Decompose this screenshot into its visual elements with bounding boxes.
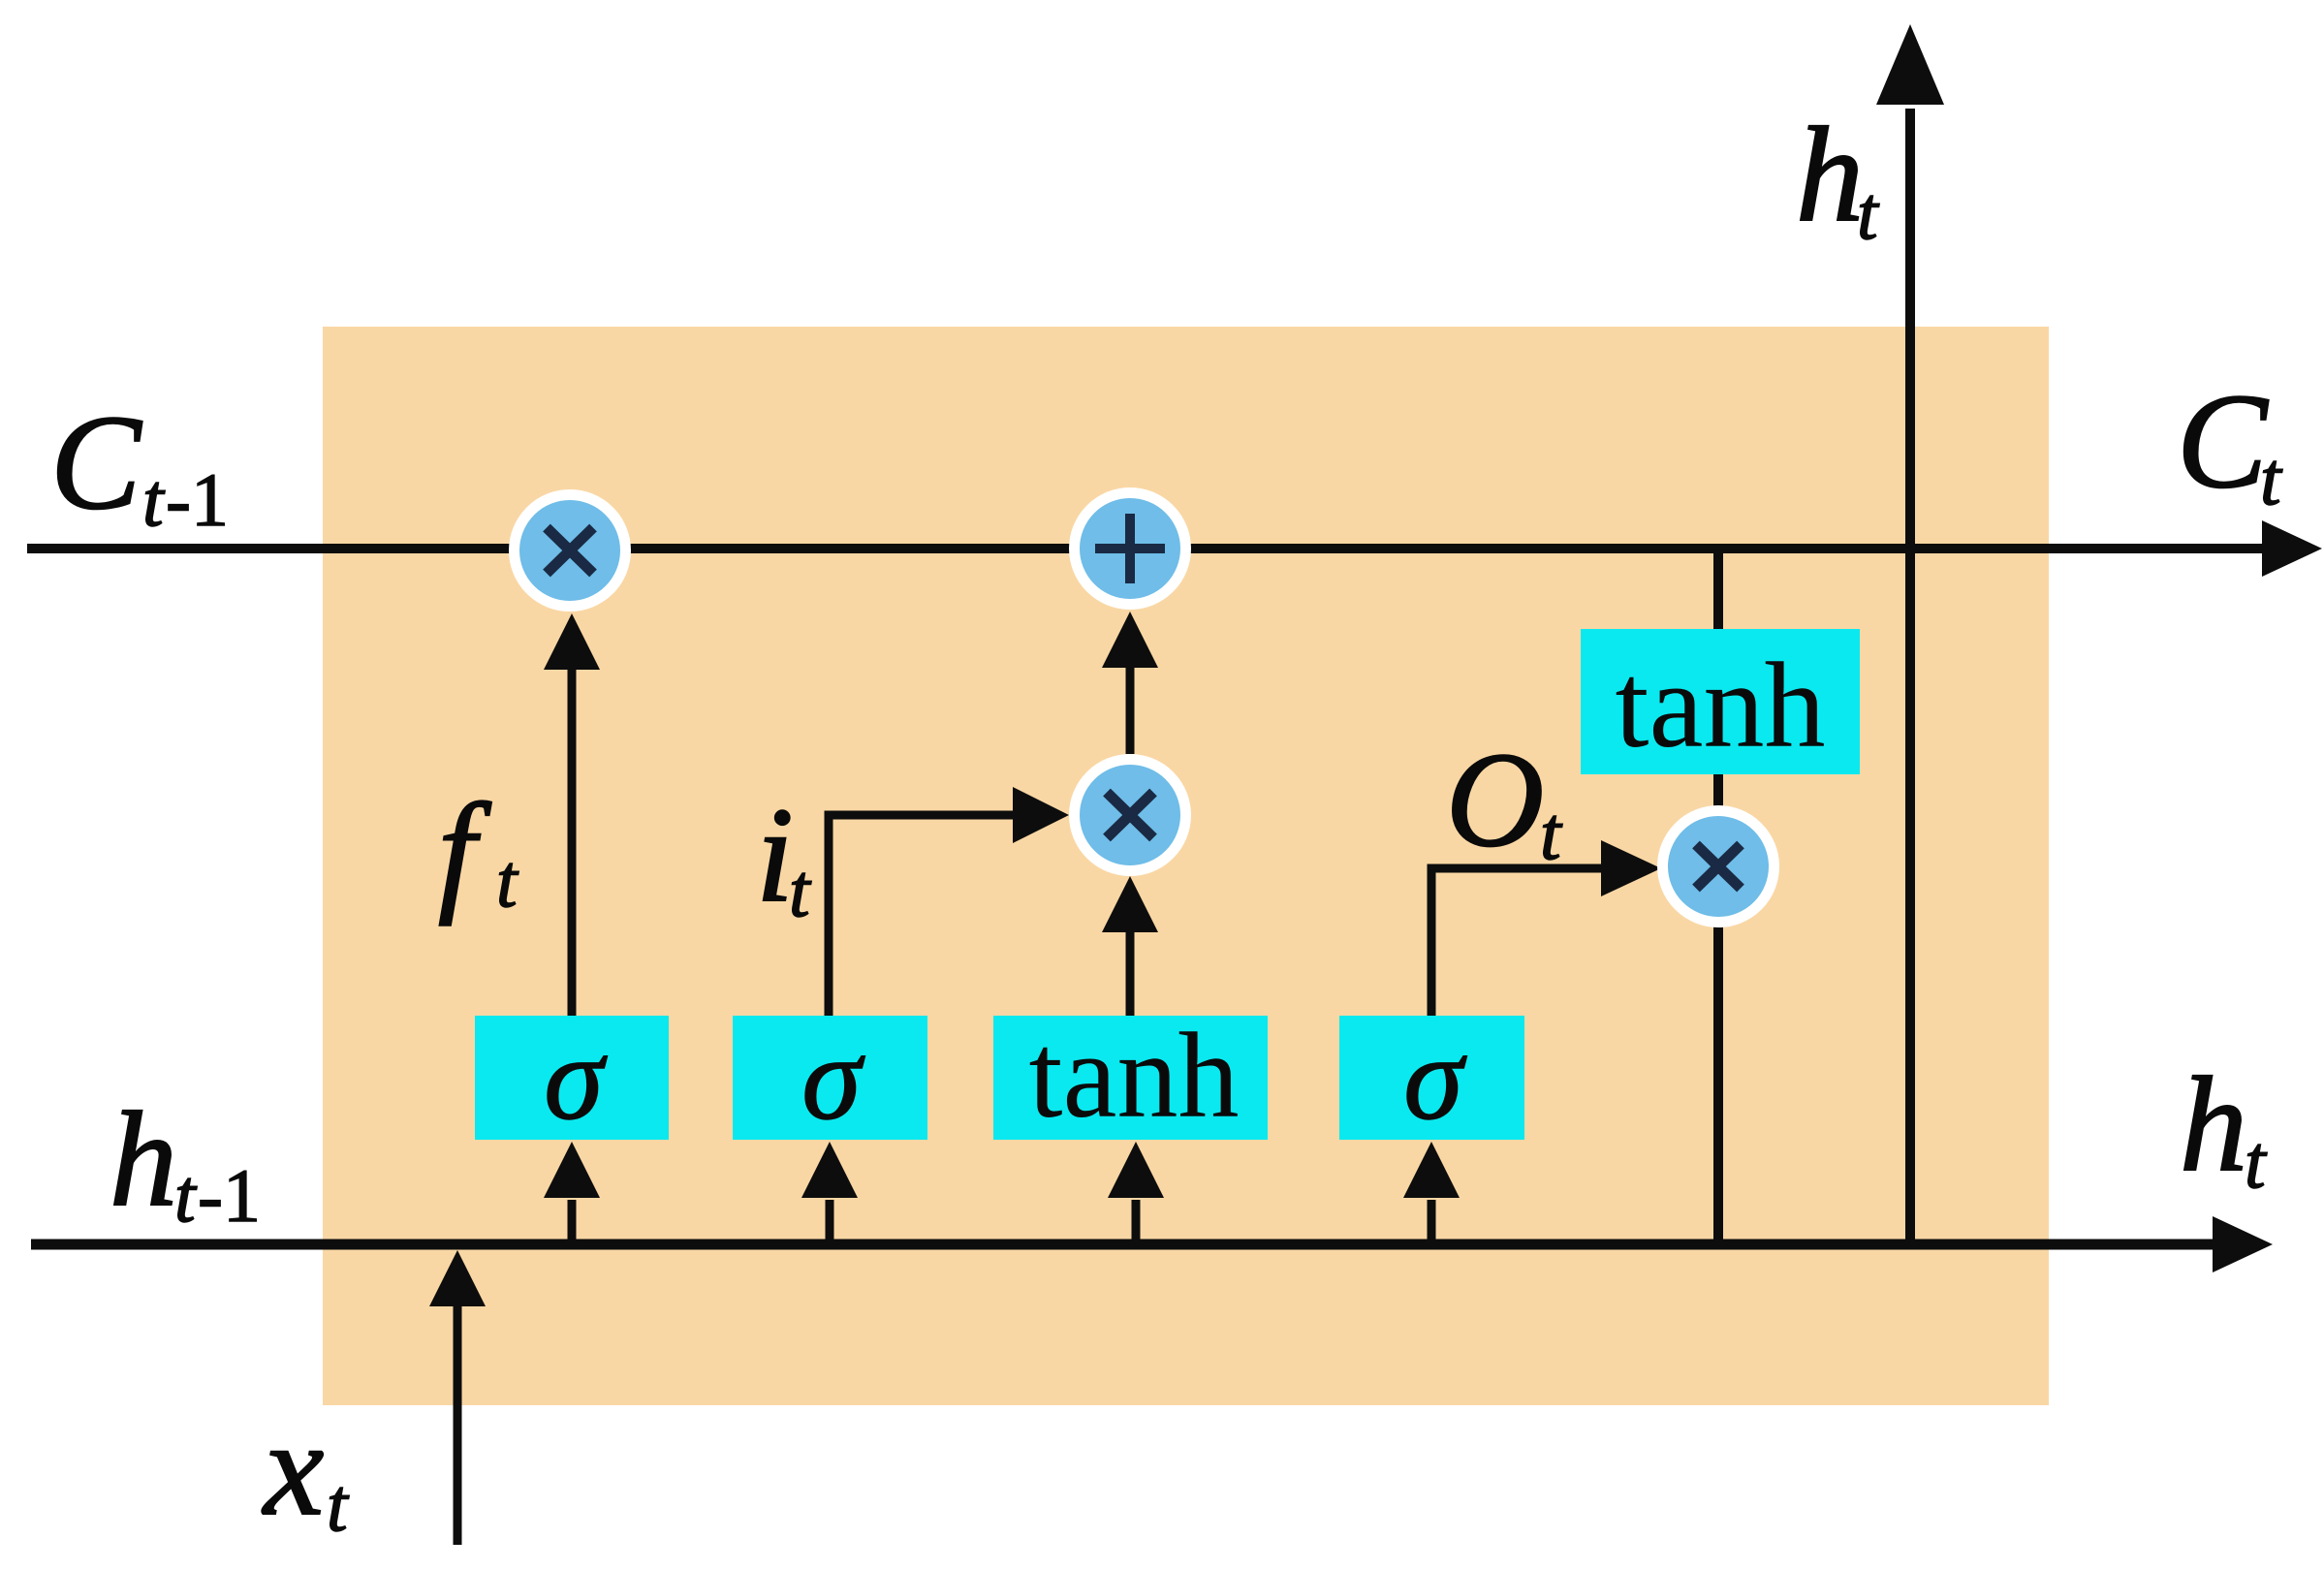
gate box: tanh (candidate): [993, 1016, 1268, 1140]
node: add on cell line: [1075, 493, 1186, 605]
arrowhead: into x-node bottom: [544, 613, 600, 670]
svg-text:t: t: [174, 1153, 198, 1238]
node: multiply (forget) on cell line: [515, 495, 626, 607]
wire: forget gate output sigma1 -> x-node: [568, 668, 577, 1016]
svg-text:t: t: [496, 838, 519, 923]
gate box: sigma1 (forget gate): [475, 1016, 669, 1140]
wire: hidden-state line ht-1 -> ht (bottom): [31, 1240, 2214, 1250]
svg-text:tanh: tanh: [1616, 639, 1826, 773]
svg-text:t: t: [1857, 171, 1880, 255]
gate box: sigma2 (input gate): [733, 1016, 927, 1140]
svg-text:h: h: [2180, 1050, 2247, 1200]
wire: vertical ht axis: [1905, 109, 1915, 1244]
svg-text:x: x: [262, 1394, 324, 1544]
arrowhead: Ct output: [2262, 520, 2322, 577]
wire: h line input arrow into sigma4: [1428, 1200, 1436, 1244]
svg-text:t: t: [789, 848, 812, 932]
svg-text:h: h: [110, 1084, 177, 1235]
wire: h line input arrow into sigma2: [826, 1200, 834, 1244]
svg-text:σ: σ: [544, 1012, 608, 1145]
svg-text:σ: σ: [801, 1012, 865, 1145]
wire: mid x-node -> plus-node: [1126, 666, 1135, 754]
svg-text:t: t: [142, 457, 166, 542]
gate box: sigma4 (output gate): [1339, 1016, 1524, 1140]
wire: h line input arrow into sigma1: [568, 1200, 577, 1244]
wire: candidate tanh -> mid x-node: [1126, 930, 1135, 1016]
svg-text:-1: -1: [198, 1153, 261, 1238]
svg-text:σ: σ: [1403, 1012, 1467, 1145]
arrowhead: ht output right: [2213, 1216, 2273, 1272]
node: multiply (input x candidate): [1075, 760, 1186, 871]
wire: input gate it path (sigma2 top -> elbow -> x-node mid): [829, 815, 1015, 1016]
LSTM cell body (orange block): [323, 327, 2049, 1405]
svg-text:t: t: [1540, 791, 1563, 875]
wire: xt input arrow from bottom: [454, 1304, 462, 1545]
arrowhead: into mid x-node left: [1013, 787, 1069, 843]
wire: h line input arrow into bottom tanh: [1132, 1200, 1141, 1244]
arrowhead: into plus-node bottom: [1102, 612, 1158, 668]
node: multiply (output): [1663, 811, 1774, 923]
wire: cell-state line Ct-1 -> Ct: [27, 544, 2262, 553]
arrowhead: into right x-node left: [1601, 840, 1661, 896]
arrowhead: into mid x-node bottom: [1102, 876, 1158, 932]
wire: output gate Ot path (sigma4 top -> elbow -> right x-node): [1431, 868, 1601, 1016]
svg-text:t: t: [2245, 1119, 2268, 1204]
svg-text:tanh: tanh: [1029, 1009, 1240, 1144]
svg-text:t: t: [2260, 436, 2283, 520]
arrowhead: ht output top: [1876, 24, 1944, 105]
svg-text:h: h: [1796, 100, 1864, 250]
svg-text:C: C: [50, 388, 142, 538]
svg-text:C: C: [2177, 366, 2269, 517]
svg-text:t: t: [327, 1462, 350, 1547]
wire: output branch through tanh to h line (x=1773): [1713, 549, 1723, 1244]
svg-text:-1: -1: [166, 457, 229, 542]
gate box: tanh (output squash, upper right): [1581, 629, 1860, 774]
svg-text:O: O: [1446, 725, 1544, 875]
